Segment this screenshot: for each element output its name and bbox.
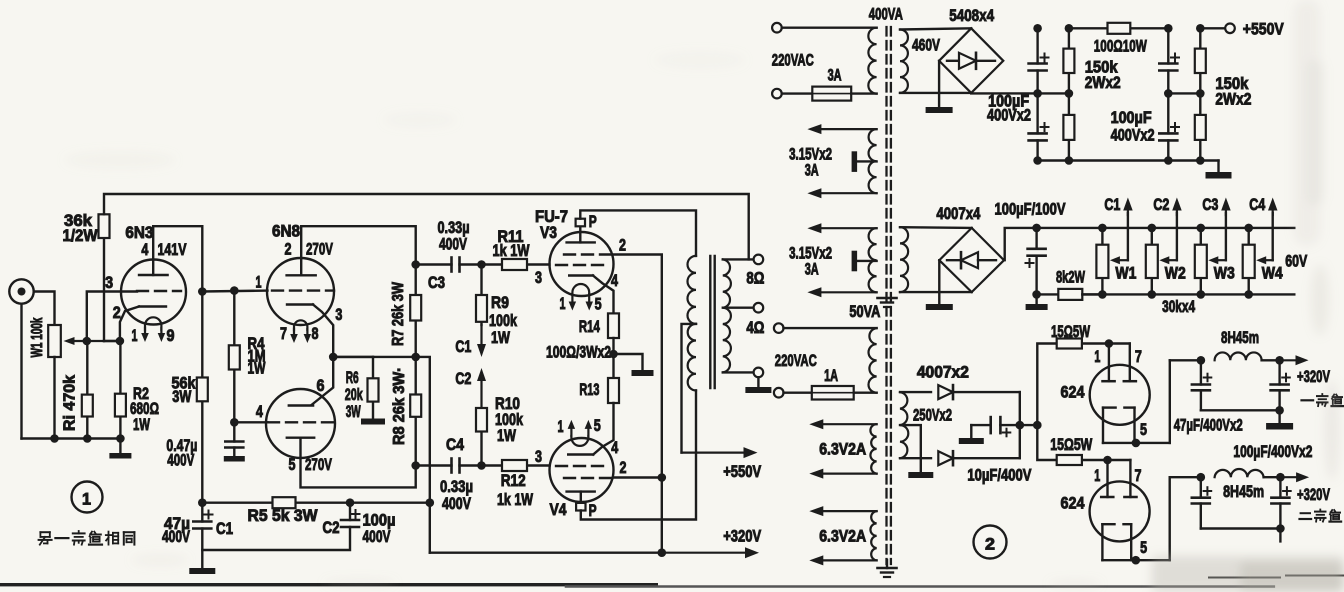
6N3 cathode lead to pin2 bbox=[120, 307, 139, 342]
stray line bottom right bbox=[1209, 577, 1280, 579]
svg-text:1k 1W: 1k 1W bbox=[497, 491, 533, 509]
filter2 ground stub bbox=[1279, 529, 1281, 542]
choke 8H45m #2 bbox=[1215, 469, 1264, 477]
svg-text:C3: C3 bbox=[1202, 196, 1218, 214]
resistor 15ohm5W #1 bbox=[1082, 342, 1109, 344]
wire reg split down bbox=[1037, 425, 1056, 460]
6N3 heater loop bbox=[145, 317, 161, 330]
node R7R8 junction bbox=[411, 353, 420, 362]
svg-text:100µ: 100µ bbox=[363, 512, 396, 530]
6N8u heater loop bbox=[294, 320, 307, 330]
svg-text:624: 624 bbox=[1061, 494, 1085, 513]
T2 primary winding bbox=[868, 328, 876, 393]
OPT secondary winding bbox=[723, 259, 731, 372]
OPT primary winding upper bbox=[688, 256, 697, 324]
rectifier tube 624 #2 bbox=[1090, 481, 1150, 541]
wiper of W4 bbox=[1266, 259, 1273, 261]
wire R4 node to 6N8 lower grid bbox=[234, 421, 267, 423]
arrow C3 up bbox=[1225, 211, 1227, 216]
svg-text:5: 5 bbox=[595, 296, 602, 314]
bridge1 diode symbol bbox=[947, 60, 959, 62]
triode 6N8 lower bbox=[266, 389, 335, 458]
cap 47uF #1a bbox=[1200, 360, 1202, 384]
svg-text:C4: C4 bbox=[446, 436, 465, 454]
bridge2 diode symbol bbox=[947, 259, 961, 261]
svg-text:C2: C2 bbox=[1153, 196, 1169, 214]
resistor R14 100ohm 3W bbox=[608, 313, 619, 338]
circled number 1 bbox=[72, 482, 103, 513]
svg-text:6.3V2A: 6.3V2A bbox=[819, 441, 866, 459]
svg-text:8Ω: 8Ω bbox=[746, 270, 764, 288]
wire capB mid to 150k2 mid bbox=[1168, 92, 1200, 94]
resistor R2 680ohm bbox=[119, 341, 121, 394]
T1 bias winding 60V bbox=[900, 227, 908, 292]
svg-text:47µF/400Vx2: 47µF/400Vx2 bbox=[1174, 417, 1243, 435]
svg-text:400V: 400V bbox=[439, 236, 467, 254]
arrow C1 down (bias feed) bbox=[480, 325, 482, 344]
svg-text:400Vx2: 400Vx2 bbox=[987, 107, 1031, 125]
choke2 out wire bbox=[1264, 476, 1281, 478]
ground OPT secondary bbox=[757, 377, 759, 387]
svg-text:15Ω5W: 15Ω5W bbox=[1050, 436, 1092, 454]
resistor 56k 3W bbox=[201, 292, 203, 378]
filter cap bank B lower bbox=[1167, 93, 1169, 133]
terminal mains N bottom bbox=[774, 388, 784, 398]
resistor R13 100ohm 3W bbox=[608, 378, 619, 403]
6N3 plate lead bbox=[152, 226, 154, 275]
T2 HV winding 250Vx2 bbox=[900, 392, 908, 458]
V4 plate cap stem bbox=[580, 492, 582, 503]
svg-text:270V: 270V bbox=[305, 456, 332, 474]
OPT 4ohm tap wire bbox=[723, 307, 754, 309]
svg-text:1A: 1A bbox=[824, 367, 838, 385]
filter2 bottom wire bbox=[1201, 527, 1281, 529]
wire 624#2 cathode out bbox=[1136, 559, 1170, 561]
svg-text:R14: R14 bbox=[579, 318, 601, 336]
svg-text:3: 3 bbox=[105, 274, 113, 292]
6N8l plate bar bbox=[287, 437, 314, 439]
svg-text:1: 1 bbox=[132, 327, 138, 345]
6N8u cathode lead pin3 bbox=[313, 305, 333, 357]
svg-text:10µF/400V: 10µF/400V bbox=[967, 467, 1031, 485]
svg-text:220VAC: 220VAC bbox=[775, 352, 817, 370]
input jack J1 bbox=[9, 279, 33, 303]
cap 100uF 100V bbox=[1035, 228, 1037, 249]
svg-text:400Vx2: 400Vx2 bbox=[1111, 127, 1155, 145]
plus 47uF b bbox=[1282, 377, 1290, 379]
T1 HV winding 460V bbox=[900, 30, 908, 93]
svg-text:R9: R9 bbox=[491, 294, 509, 312]
plus capB2 bbox=[1171, 126, 1179, 128]
node 150k2 bottom bbox=[1196, 156, 1205, 165]
svg-text:460V: 460V bbox=[912, 37, 940, 55]
core ground mid bbox=[878, 297, 897, 300]
plus capA1 bbox=[1041, 57, 1049, 59]
svg-text:100Ω10W: 100Ω10W bbox=[1094, 38, 1147, 56]
wire cathode node to R7R8 node bbox=[333, 356, 416, 358]
node 150k1 bottom bbox=[1065, 156, 1074, 165]
svg-text:4: 4 bbox=[611, 272, 619, 290]
wire jack ground drop bbox=[20, 304, 22, 439]
node 624#1 cathode bbox=[1132, 439, 1141, 448]
svg-text:P: P bbox=[589, 213, 597, 231]
ground under 0.47u bbox=[224, 456, 245, 462]
svg-text:7: 7 bbox=[1135, 467, 1142, 485]
wire reg split up bbox=[1037, 344, 1056, 426]
capacitor C3 0.33u bbox=[416, 263, 452, 265]
svg-text:R12: R12 bbox=[501, 472, 526, 490]
T2 heater winding 6.3V #2 bbox=[870, 511, 876, 560]
svg-text:50VA: 50VA bbox=[849, 303, 880, 321]
svg-text:C1: C1 bbox=[455, 338, 471, 356]
node R7 top / C3 bbox=[411, 260, 420, 269]
OPT 8ohm tap wire bbox=[723, 258, 754, 260]
plus C1 bbox=[205, 514, 213, 516]
svg-text:100µF/400Vx2: 100µF/400Vx2 bbox=[1233, 443, 1312, 461]
node R4 top bbox=[230, 286, 239, 295]
svg-text:5: 5 bbox=[594, 417, 601, 435]
svg-text:+320V: +320V bbox=[1297, 368, 1330, 386]
cap 47uF #1b bbox=[1278, 360, 1280, 384]
arrow heater1 top bbox=[821, 128, 876, 130]
potentiometer W4 30k bbox=[1244, 224, 1253, 233]
plus capB1 bbox=[1171, 57, 1179, 59]
svg-text:R6: R6 bbox=[346, 369, 359, 387]
heater1 CT bar bbox=[852, 151, 858, 172]
+320V rail bbox=[430, 552, 662, 554]
svg-text:30kx4: 30kx4 bbox=[1162, 298, 1196, 316]
arrow 6.3V #2 bottom bbox=[823, 559, 876, 561]
beam tetrode FU-7 V4 bbox=[550, 438, 614, 502]
svg-text:R8 26k 3W·: R8 26k 3W· bbox=[391, 367, 408, 445]
svg-text:7: 7 bbox=[280, 325, 287, 343]
svg-text:2: 2 bbox=[285, 241, 292, 259]
feedback rail top bbox=[103, 238, 105, 341]
plus C2 bbox=[352, 513, 360, 515]
filter1 input wire bbox=[1170, 359, 1201, 361]
stray line right edge bbox=[1286, 575, 1344, 577]
svg-text:20k: 20k bbox=[345, 386, 364, 404]
V3 screen dashes bbox=[564, 253, 612, 255]
wire to regulator node bbox=[1020, 424, 1038, 426]
capacitor C4 0.33u bbox=[416, 464, 452, 466]
624#2 cathode box bbox=[1101, 524, 1103, 560]
arrow C2 up bbox=[1176, 211, 1178, 216]
6N3 plate wire to node bbox=[153, 226, 202, 291]
terminal mains L bottom bbox=[774, 323, 784, 333]
node filter1 capA bbox=[1197, 356, 1206, 365]
ground mid cathode bbox=[632, 370, 654, 376]
node capB mid bbox=[1164, 89, 1173, 98]
V4 heater arrow 5 bbox=[587, 429, 589, 436]
capacitor 0.47u 400V bbox=[233, 422, 235, 441]
cap 100uF #2b bbox=[1279, 477, 1281, 498]
choke1 out wire bbox=[1262, 359, 1280, 361]
bottom dotted line bbox=[566, 585, 1276, 588]
svg-text:270V: 270V bbox=[306, 241, 333, 259]
node R4 bottom bbox=[230, 418, 239, 427]
choke 8H45m #1 bbox=[1215, 352, 1262, 360]
circled number 2 bbox=[974, 526, 1007, 559]
svg-text:8: 8 bbox=[312, 325, 319, 343]
svg-text:6N3: 6N3 bbox=[125, 224, 153, 242]
filter cap bank A upper bbox=[1036, 28, 1038, 63]
capacitor C2 100u 400V bbox=[349, 503, 351, 520]
svg-text:400V: 400V bbox=[442, 495, 471, 513]
svg-text:3A: 3A bbox=[805, 261, 819, 279]
svg-text:W1 100k: W1 100k bbox=[29, 317, 46, 357]
node capA top bbox=[1033, 24, 1042, 33]
OPT core bbox=[709, 256, 711, 388]
wire V4 plate to OPT primary bottom bbox=[581, 390, 696, 519]
node capA bottom bbox=[1033, 156, 1042, 165]
bias top bus bbox=[1037, 227, 1295, 229]
6N8l grid dashes bbox=[268, 421, 334, 423]
bridge rectifier 5408x4 bbox=[939, 28, 1003, 93]
node C2 top bbox=[346, 498, 355, 507]
OPT primary CT wire bbox=[682, 324, 697, 453]
ground under C1 bbox=[189, 568, 215, 574]
ground bus bottom left bbox=[22, 437, 121, 439]
svg-text:2: 2 bbox=[985, 535, 995, 554]
wire 36k to cathode node bbox=[104, 340, 120, 342]
bleeder 150k upper #1 bbox=[1068, 28, 1070, 48]
6N8u heater arrow 8 bbox=[306, 329, 308, 334]
wire mains bottom top bbox=[784, 327, 877, 329]
wire bridge2 out bbox=[1004, 228, 1037, 260]
node plate/56k bbox=[198, 287, 207, 296]
svg-text:1k 1W: 1k 1W bbox=[493, 242, 530, 260]
arrow heater1 bottom bbox=[821, 192, 876, 194]
6N8u plate bar bbox=[287, 274, 316, 276]
arrow C4 up bbox=[1272, 211, 1274, 216]
6N8u heater arrow 7 bbox=[293, 329, 295, 334]
wire V4 screen to riser bbox=[613, 476, 662, 478]
arrow C2 up (bias feed) bbox=[480, 381, 482, 408]
resistor 8k2W bbox=[1037, 293, 1059, 295]
note another channel identical bbox=[40, 531, 49, 533]
node rect/cap bbox=[1016, 421, 1025, 430]
svg-text:1: 1 bbox=[1094, 348, 1100, 366]
6N3 heater arrow 1 bbox=[144, 328, 146, 333]
svg-text:8k2W: 8k2W bbox=[1056, 269, 1085, 287]
potentiometer W1 30k bbox=[1098, 224, 1107, 233]
svg-text:2: 2 bbox=[619, 237, 626, 255]
resistor R10 100k 1W bbox=[480, 432, 482, 466]
wire plate node to 6N8 grid bbox=[202, 289, 267, 292]
svg-text:6.3V2A: 6.3V2A bbox=[819, 528, 866, 546]
node 150k1 top bbox=[1065, 24, 1074, 33]
svg-text:5408x4: 5408x4 bbox=[949, 6, 994, 25]
bleeder 150k upper #2 bbox=[1199, 28, 1201, 48]
node 150k2 top bbox=[1196, 24, 1205, 33]
T1 heater winding 3.15Vx2 #2 bbox=[869, 228, 877, 292]
node 150k1 mid bbox=[1065, 89, 1074, 98]
wiper arrow of W1 bbox=[75, 340, 119, 342]
wire V3 plate to OPT primary top bbox=[580, 210, 696, 256]
wire R13 to V4 pin4 bbox=[593, 403, 613, 455]
V4 heater arrow 1 bbox=[570, 429, 572, 436]
label channel1 bbox=[1302, 399, 1314, 401]
beam tetrode FU-7 V3 bbox=[550, 232, 614, 296]
svg-text:R13: R13 bbox=[579, 381, 599, 399]
svg-text:141V: 141V bbox=[158, 241, 187, 259]
heater2 CT bar bbox=[852, 251, 858, 272]
arrow +320V bbox=[662, 552, 745, 554]
plus 100uF100V bbox=[1026, 262, 1034, 264]
svg-text:7: 7 bbox=[1135, 348, 1142, 366]
svg-text:400V: 400V bbox=[363, 528, 391, 546]
plus 100uF a bbox=[1204, 490, 1212, 492]
svg-text:+550V: +550V bbox=[723, 463, 761, 481]
V4 cathode bar bbox=[568, 453, 593, 455]
wire wiper node to grid bbox=[87, 292, 137, 342]
filter cap bank B upper bbox=[1167, 28, 1169, 63]
resistor R6 20k 3W bbox=[372, 357, 374, 378]
svg-text:+320V: +320V bbox=[723, 528, 761, 546]
svg-text:1W: 1W bbox=[491, 329, 510, 347]
bleeder 150k lower #2 bbox=[1199, 93, 1201, 115]
resistor R9 100k 1W bbox=[480, 265, 482, 296]
svg-text:8H45m: 8H45m bbox=[1221, 329, 1259, 347]
svg-text:+320V: +320V bbox=[1297, 486, 1330, 504]
T1 heater winding 3.15Vx2 #1 bbox=[869, 129, 877, 193]
wiper of W2 bbox=[1169, 259, 1177, 261]
V3 heater arrow 1 bbox=[571, 294, 573, 302]
svg-text:100Ω/3Wx2: 100Ω/3Wx2 bbox=[546, 344, 611, 362]
svg-text:624: 624 bbox=[1061, 383, 1085, 402]
svg-text:4: 4 bbox=[611, 439, 619, 457]
svg-text:220VAC: 220VAC bbox=[772, 52, 814, 70]
V4 plate cap P bbox=[576, 503, 585, 511]
plus 10uF bbox=[1003, 432, 1011, 434]
bias bottom bus bbox=[1082, 293, 1294, 295]
core ground bottom bbox=[886, 560, 888, 568]
svg-text:1W: 1W bbox=[248, 360, 266, 378]
svg-text:3: 3 bbox=[535, 269, 542, 287]
T1 primary winding bbox=[868, 28, 876, 94]
cap 10uF/400V bbox=[970, 425, 972, 438]
arrow heater2 bottom bbox=[821, 291, 876, 293]
6N3 plate bar bbox=[139, 274, 168, 276]
node R10 bottom bbox=[477, 461, 486, 470]
svg-text:C4: C4 bbox=[1249, 196, 1266, 214]
resistor R12 1k 1W bbox=[482, 464, 503, 466]
svg-text:250Vx2: 250Vx2 bbox=[913, 407, 952, 425]
624#1 cathode box bbox=[1102, 408, 1104, 443]
terminal mains N top bbox=[772, 89, 782, 99]
svg-text:1: 1 bbox=[82, 490, 91, 509]
svg-text:P: P bbox=[589, 502, 597, 520]
terminal +550V bbox=[1225, 24, 1235, 34]
V4 plate bar bbox=[567, 490, 595, 492]
svg-text:400V: 400V bbox=[162, 528, 190, 546]
arrow 6.3V #2 top bbox=[823, 510, 876, 512]
fuse 3A bbox=[782, 92, 813, 94]
svg-text:15Ω5W: 15Ω5W bbox=[1051, 323, 1090, 341]
bleeder 150k lower #1 bbox=[1068, 93, 1070, 115]
6N8l cathode bar bbox=[289, 404, 313, 406]
svg-text:3: 3 bbox=[335, 306, 342, 324]
bridge rectifier 4007x4 bbox=[939, 228, 1004, 292]
svg-text:4: 4 bbox=[141, 241, 149, 259]
wire bias top to bridge2 bbox=[900, 226, 972, 229]
arrow +550V bbox=[682, 452, 744, 454]
node R8 bottom bbox=[411, 461, 420, 470]
svg-text:V4: V4 bbox=[550, 500, 567, 519]
wire mains top bbox=[782, 27, 877, 29]
svg-text:2: 2 bbox=[620, 459, 627, 477]
svg-text:C2: C2 bbox=[323, 519, 340, 537]
terminal 4ohm bbox=[754, 303, 764, 313]
plus capA2 bbox=[1041, 126, 1049, 128]
arrow C1 up bbox=[1127, 211, 1129, 216]
svg-text:C1: C1 bbox=[1104, 196, 1120, 214]
node filter2 capB bbox=[1276, 473, 1285, 482]
wire jack to W1 top bbox=[34, 292, 55, 326]
node 56k/R5/C1 bbox=[198, 498, 207, 507]
svg-text:3W: 3W bbox=[346, 403, 361, 421]
ground symbol under R2 bbox=[119, 439, 121, 454]
bottom black bar bbox=[0, 583, 658, 586]
triode 6N3 bbox=[121, 260, 186, 325]
HV mid rail bbox=[971, 92, 1069, 94]
node bias cap bottom bbox=[1032, 290, 1041, 299]
6N8u grid dashes bbox=[272, 289, 334, 291]
6N3 heater arrow 9 bbox=[160, 328, 162, 333]
svg-text:6: 6 bbox=[317, 377, 325, 395]
svg-text:C3: C3 bbox=[428, 274, 445, 292]
svg-text:1W: 1W bbox=[133, 416, 150, 434]
resistor 15ohm5W #2 bbox=[1082, 459, 1108, 461]
6N8l cathode lead pin6 bbox=[312, 357, 333, 405]
resistor R1 470k bbox=[86, 341, 88, 395]
node regulator split bbox=[1033, 421, 1042, 430]
V3 cathode bar bbox=[569, 274, 593, 276]
svg-text:R7 26k 3W: R7 26k 3W bbox=[390, 282, 407, 346]
HV bottom rail bbox=[1038, 159, 1219, 161]
resistor R8 26k 3W bbox=[415, 357, 417, 395]
bridge2 AC ground bbox=[938, 260, 940, 304]
svg-text:1: 1 bbox=[558, 418, 564, 436]
6N8l plate lead bbox=[301, 438, 416, 488]
svg-text:2Wx2: 2Wx2 bbox=[1085, 74, 1121, 92]
wire R6 top bbox=[333, 356, 373, 358]
wire R5 to riser bbox=[350, 502, 430, 504]
diode D2 4007 bbox=[900, 457, 931, 459]
svg-text:+550V: +550V bbox=[1243, 20, 1285, 39]
transformer core dashed bbox=[885, 27, 887, 564]
fuse 1A bbox=[784, 392, 812, 394]
wire V3 screen to +320 riser bbox=[613, 255, 662, 553]
arrow heater2 top bbox=[821, 227, 876, 229]
svg-text:400V: 400V bbox=[167, 452, 194, 470]
node R9/R11 bbox=[477, 260, 486, 269]
svg-text:5: 5 bbox=[1140, 421, 1147, 439]
6N8u cathode bar bbox=[287, 303, 313, 305]
node R14/R13 midpoint bbox=[612, 338, 614, 378]
node capA mid bbox=[1033, 89, 1042, 98]
6N3 grid dashes bbox=[137, 290, 181, 292]
terminal secondary gnd bbox=[754, 368, 764, 378]
6N3 cathode bar bbox=[139, 305, 166, 307]
svg-text:100µF/100V: 100µF/100V bbox=[995, 201, 1066, 219]
node 624#2 cathode bbox=[1132, 556, 1141, 565]
svg-text:3: 3 bbox=[535, 448, 542, 466]
potentiometer W2 30k bbox=[1148, 224, 1157, 233]
filter1 bottom wire bbox=[1201, 409, 1280, 411]
arrow +320V ch2 bbox=[1280, 476, 1296, 478]
